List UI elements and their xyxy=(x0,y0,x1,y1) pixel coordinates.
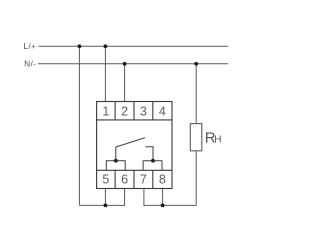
svg-text:H: H xyxy=(214,135,221,146)
wire bottom left run xyxy=(79,188,124,205)
junction dot on NO bracket xyxy=(151,159,155,163)
svg-text:7: 7 xyxy=(140,173,147,187)
wire N/- to RH top xyxy=(195,64,197,124)
contact NO bracket (terminals 7-8) xyxy=(143,161,162,170)
svg-text:3: 3 xyxy=(140,104,147,118)
terminal row separator bottom xyxy=(97,169,172,171)
terminal row separator top xyxy=(97,119,172,121)
wire RH bottom drop xyxy=(195,151,197,206)
divider terminals 1|2 xyxy=(114,102,116,120)
junction dot on L/+ at terminal 1 wire xyxy=(104,44,108,48)
contact pivot stub xyxy=(115,147,117,161)
junction dot bottom wire at terminal 5 xyxy=(104,204,108,208)
divider terminals 3|4 xyxy=(152,102,154,120)
divider terminals 2|3 xyxy=(133,102,135,120)
wire N/- bus xyxy=(38,63,228,65)
svg-text:1: 1 xyxy=(102,104,109,118)
relay device outline xyxy=(97,102,172,189)
divider terminals 6|7 xyxy=(133,170,135,189)
divider terminals 5|6 xyxy=(114,170,116,189)
wire bottom right run xyxy=(144,188,196,205)
junction dot on N/- at RH drop xyxy=(194,62,198,66)
svg-text:L/+: L/+ xyxy=(23,41,36,51)
resistor RH xyxy=(190,124,202,151)
wire terminal 8 stub xyxy=(162,188,164,205)
svg-text:N/-: N/- xyxy=(24,59,36,69)
svg-text:8: 8 xyxy=(159,173,166,187)
wire left drop from L/+ xyxy=(78,46,80,205)
svg-text:2: 2 xyxy=(121,104,128,118)
junction dot bottom wire at terminal 8 xyxy=(161,204,165,208)
junction dot on N/- at terminal 2 wire xyxy=(123,62,127,66)
contact fixed hook xyxy=(145,147,153,161)
wire to terminal 1 xyxy=(104,46,106,101)
junction dot on common bracket xyxy=(114,159,118,163)
svg-text:6: 6 xyxy=(121,173,128,187)
wire to terminal 2 xyxy=(124,64,126,102)
wire terminal 5 stub xyxy=(104,188,106,205)
svg-text:4: 4 xyxy=(159,104,166,118)
divider terminals 7|8 xyxy=(152,170,154,189)
wire L/+ bus xyxy=(39,45,229,47)
svg-text:5: 5 xyxy=(102,173,109,187)
junction dot on L/+ at left drop xyxy=(78,44,82,48)
contact common bracket (terminals 5-6) xyxy=(106,161,125,170)
contact blade (open switch) xyxy=(116,138,145,147)
